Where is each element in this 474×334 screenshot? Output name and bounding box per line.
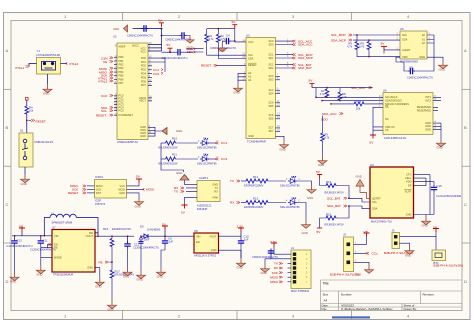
svg-text:CCx: CCx: [372, 252, 378, 256]
svg-text:GND: GND: [113, 27, 119, 31]
svg-text:EN: EN: [196, 240, 200, 244]
svg-text:R16: R16: [103, 227, 109, 231]
svg-text:PB7: PB7: [119, 81, 124, 85]
svg-text:C0603C104K4RACTU: C0603C104K4RACTU: [127, 34, 153, 38]
svg-text:RESET: RESET: [248, 63, 257, 67]
resistor R16 divider top: [103, 227, 131, 270]
svg-text:B2B-PH-K-S(LF)(SN): B2B-PH-K-S(LF)(SN): [434, 264, 463, 268]
ground mux a pins: [234, 83, 243, 95]
pin numbers mux left: [242, 39, 245, 80]
svg-text:U2: U2: [113, 35, 117, 39]
svg-text:Revision: Revision: [423, 293, 435, 297]
svg-text:GND: GND: [219, 49, 225, 53]
svg-text:4.7k: 4.7k: [359, 45, 365, 49]
svg-text:GND: GND: [157, 275, 163, 279]
svg-text:SCL: SCL: [248, 53, 254, 57]
net label SCK: [101, 73, 113, 77]
capacitor C12 out: [124, 242, 159, 268]
net label MISO icsp: [70, 184, 86, 188]
svg-text:TX: TX: [230, 179, 234, 183]
resistor R8: [338, 88, 347, 102]
svg-text:C4: C4: [226, 34, 230, 38]
svg-text:GND: GND: [437, 146, 443, 150]
svg-text:UART1: UART1: [199, 176, 209, 180]
net label MISO hdr: [270, 280, 283, 284]
svg-text:GND: GND: [355, 272, 361, 276]
svg-text:GND: GND: [140, 134, 146, 138]
svg-text:RX: RX: [214, 189, 218, 193]
ground crystal: [43, 84, 52, 96]
svg-text:R10: R10: [172, 137, 178, 141]
svg-text:GND: GND: [318, 163, 324, 167]
svg-text:PD4: PD4: [141, 72, 147, 76]
svg-text:XTAL2: XTAL2: [69, 62, 79, 66]
svg-text:RESERVED: RESERVED: [417, 108, 431, 112]
svg-text:GND: GND: [261, 271, 267, 275]
net label SDA_ACC: [292, 43, 313, 47]
power C3: [167, 43, 173, 52]
led row4: [230, 201, 240, 205]
ground R9: [318, 156, 327, 168]
svg-text:TCA9548APWR: TCA9548APWR: [247, 139, 266, 143]
svg-text:GND: GND: [119, 191, 125, 195]
net label RESET mux: [201, 64, 217, 68]
ground switch: [21, 174, 30, 186]
svg-text:RX: RX: [230, 201, 234, 205]
resistor R7: [320, 87, 329, 98]
capacitor C3: [162, 49, 194, 60]
capacitor C2: [161, 32, 191, 41]
svg-text:R13: R13: [253, 197, 259, 201]
wire mux scl sda: [193, 49, 246, 59]
power 5V mcu: [158, 19, 164, 27]
wire adxl cs vdd: [373, 107, 383, 134]
junction dots vout: [97, 236, 141, 237]
svg-text:RESET: RESET: [68, 191, 78, 195]
svg-text:MOSI: MOSI: [118, 187, 125, 191]
svg-text:C0603C104K4RACTU: C0603C104K4RACTU: [407, 76, 433, 80]
svg-text:VCC: VCC: [248, 40, 254, 44]
net label SCL mcu: [101, 109, 113, 113]
svg-text:File:: File:: [322, 307, 328, 311]
svg-text:VB: VB: [433, 226, 437, 230]
uart wires: [185, 181, 198, 205]
wire mux gnd: [276, 136, 285, 139]
mcu U2 ATMEGA328P-AU: [113, 35, 148, 145]
svg-text:ALRT: ALRT: [405, 189, 412, 193]
svg-text:SD0: SD0: [268, 42, 274, 46]
svg-text:TX: TX: [215, 186, 219, 190]
junction dots 5v: [164, 236, 165, 237]
svg-text:SCK: SCK: [96, 187, 102, 191]
svg-text:CE: CE: [103, 60, 107, 64]
svg-text:VDD: VDD: [402, 55, 408, 59]
svg-text:SD3: SD3: [268, 78, 274, 82]
prog header top wire: [265, 247, 291, 259]
capacitor C10: [238, 235, 249, 259]
svg-text:EP: EP: [408, 183, 412, 187]
ground hdr: [261, 264, 270, 276]
power 3.3V ldo: [237, 225, 245, 232]
svg-text:GND: GND: [307, 196, 313, 200]
svg-text:U5: U5: [400, 27, 404, 31]
svg-text:C1206C106K4RACTU: C1206C106K4RACTU: [30, 248, 56, 252]
net label SCL_ACC right: [351, 86, 372, 90]
ground mcu: [162, 128, 182, 135]
svg-text:ICSP1: ICSP1: [95, 175, 104, 179]
power adxl: [370, 135, 377, 145]
svg-text:VB: VB: [364, 230, 368, 234]
svg-text:C1206C106K4RACTU: C1206C106K4RACTU: [133, 245, 159, 249]
capacitor C15 gauge: [430, 182, 461, 215]
net label CC2: [153, 72, 163, 76]
net label SCL wire: [187, 47, 196, 51]
svg-text:U7: U7: [52, 226, 56, 230]
wire mcp alert power: [384, 50, 400, 54]
svg-text:SCK: SCK: [272, 271, 279, 275]
ground divider: [108, 300, 117, 312]
led D4: [280, 197, 306, 220]
ground icsp: [135, 197, 144, 209]
svg-text:C0603C104K4RACTU: C0603C104K4RACTU: [252, 255, 278, 259]
mux right stubs ch0-3: [276, 41, 294, 68]
wires mcp scl sda: [353, 35, 400, 40]
svg-text:PC5: PC5: [119, 108, 125, 112]
svg-text:10k: 10k: [356, 107, 361, 111]
net label TX hdr: [274, 262, 283, 266]
svg-text:GND: GND: [406, 212, 412, 216]
capacitor C14 hdr: [252, 249, 278, 260]
capacitor C11 input2: [30, 239, 56, 252]
svg-text:GND: GND: [21, 182, 27, 186]
svg-text:ERJ8GEYJ470V: ERJ8GEYJ470V: [325, 190, 344, 194]
svg-text:4.7k: 4.7k: [324, 136, 330, 140]
wire switch gnd: [24, 167, 26, 174]
net label RX uart: [174, 186, 184, 190]
svg-text:AVCC: AVCC: [132, 43, 139, 47]
svg-text:CL21A106KQSNNNE: CL21A106KQSNNNE: [436, 194, 461, 198]
svg-text:4.7k: 4.7k: [347, 45, 353, 49]
ground avcc filter: [113, 25, 133, 32]
svg-text:D: D: [464, 279, 467, 284]
svg-text:SD5: SD5: [268, 104, 274, 108]
svg-text:VDD: VDD: [406, 179, 412, 183]
svg-text:CTG: CTG: [406, 172, 411, 176]
wire vout rail: [95, 233, 141, 243]
svg-text:C: C: [6, 202, 9, 207]
svg-text:SCL: SCL: [402, 33, 408, 37]
svg-text:VS: VS: [385, 128, 389, 132]
svg-text:C: C: [464, 202, 467, 207]
svg-text:SCL_MCP: SCL_MCP: [331, 33, 346, 37]
led row2 resistor R11: [159, 153, 199, 166]
title block: [321, 280, 463, 311]
ldo U8 AP2112K: [194, 229, 219, 257]
svg-text:GND: GND: [43, 92, 49, 96]
capacitor C8 mcp: [404, 57, 434, 79]
svg-text:S1: S1: [20, 129, 24, 133]
svg-text:GND: GND: [10, 280, 16, 284]
svg-text:MISO: MISO: [96, 184, 103, 188]
svg-text:GND: GND: [439, 68, 445, 72]
svg-text:J3: J3: [392, 229, 395, 233]
net label CC J2: [366, 252, 378, 256]
wire mcu avcc rail: [133, 29, 162, 52]
net label RESET icsp: [68, 191, 86, 195]
power uart vref: [181, 205, 188, 215]
svg-text:GND: GND: [280, 148, 286, 152]
svg-text:SD6: SD6: [268, 117, 274, 121]
svg-text:U6: U6: [383, 89, 387, 93]
svg-text:AREF: AREF: [119, 45, 126, 49]
svg-text:SC4: SC4: [268, 88, 274, 92]
net label SDA_BAT right: [327, 204, 347, 208]
net label SDA_MCP right: [331, 38, 352, 42]
svg-text:SD2: SD2: [268, 66, 274, 70]
svg-text:C15: C15: [437, 184, 443, 188]
net label XTAL2 mcu: [98, 80, 113, 84]
svg-text:CELL: CELL: [405, 176, 412, 180]
svg-text:3.3V: 3.3V: [237, 225, 244, 229]
svg-text:ERJP06F220MV: ERJP06F220MV: [244, 184, 264, 188]
svg-text:SDA_ACC: SDA_ACC: [298, 43, 313, 47]
wire mux reset: [216, 64, 246, 66]
wire mode: [41, 257, 52, 259]
svg-text:SDA: SDA: [402, 37, 408, 41]
svg-text:SC1: SC1: [268, 52, 274, 56]
svg-text:TPS61022RWUR: TPS61022RWUR: [53, 273, 73, 277]
power VB J2: [364, 230, 370, 237]
ground led row3: [307, 185, 316, 200]
net label SDA mcu: [101, 106, 113, 110]
resistor R9 sdo: [321, 116, 330, 156]
net label CSN: [101, 56, 113, 60]
net label MISO: [99, 70, 113, 74]
svg-text:XTAL2: XTAL2: [98, 80, 108, 84]
net label XTAL2: [66, 62, 79, 66]
svg-text:J2: J2: [343, 233, 346, 237]
svg-text:SDO/ALT ADDRESS: SDO/ALT ADDRESS: [385, 102, 409, 106]
svg-text:XTAL1: XTAL1: [15, 66, 25, 70]
wire XTAL1: [29, 64, 37, 67]
svg-text:Number: Number: [341, 293, 352, 297]
led row1 resistor R10: [159, 137, 199, 150]
net label SCL_ACC: [292, 39, 313, 43]
net label RESET sw: [28, 119, 46, 124]
svg-text:TX: TX: [274, 262, 278, 266]
mcu left pin stubs PB: [114, 57, 117, 115]
mux right stubs nc: [276, 76, 281, 131]
svg-text:GND: GND: [176, 171, 182, 175]
wire adxl right gnd: [433, 97, 441, 138]
ground mux cap: [218, 41, 227, 52]
wire en fb: [41, 245, 52, 266]
wire J3 pin1: [400, 232, 437, 246]
led row3: [230, 179, 240, 183]
svg-text:SML-D12PWT86: SML-D12PWT86: [280, 205, 300, 209]
svg-text:4.7k: 4.7k: [209, 37, 215, 41]
svg-text:SDA_MCP: SDA_MCP: [331, 38, 346, 42]
power mux vcc: [232, 20, 238, 29]
temp sensor U5 MCP9808: [400, 27, 427, 64]
led D3: [280, 175, 312, 188]
net label SCL_BAT right: [327, 196, 347, 200]
svg-text:INT2: INT2: [425, 99, 431, 103]
ground led row4: [302, 220, 311, 235]
net label MOSI icsp: [143, 188, 155, 192]
net label MOSI hdr: [270, 275, 283, 279]
svg-text:1uF: 1uF: [244, 238, 249, 242]
svg-text:ALERT: ALERT: [402, 48, 411, 52]
svg-text:SCL: SCL: [101, 109, 107, 113]
svg-text:A2: A2: [422, 41, 426, 45]
svg-text:SCL_BAT: SCL_BAT: [327, 196, 341, 200]
svg-text:ERJ2RKF1003X: ERJ2RKF1003X: [159, 161, 178, 165]
resistor R13: [241, 197, 286, 210]
ground adxl: [437, 138, 446, 150]
svg-text:4.7k: 4.7k: [342, 95, 348, 99]
svg-text:PB2: PB2: [119, 63, 124, 67]
boost converter U7 TPS61022: [52, 226, 95, 277]
svg-text:PD1: PD1: [141, 60, 147, 64]
net label XTAL1: [15, 65, 29, 70]
svg-text:RESET: RESET: [36, 120, 46, 124]
svg-text:GND: GND: [405, 253, 411, 257]
svg-text:SC0: SC0: [268, 39, 274, 43]
net label TX uart: [174, 190, 184, 194]
svg-text:ADXL345BCCZ-RL: ADXL345BCCZ-RL: [384, 136, 407, 140]
wire J2 pin2: [354, 252, 367, 254]
svg-text:CC1: CC1: [221, 141, 227, 145]
wire mcp vdd: [396, 57, 404, 69]
svg-text:NC: NC: [385, 117, 389, 121]
net label CC0: [101, 94, 113, 98]
svg-text:PB4: PB4: [119, 70, 124, 74]
ground C12: [123, 267, 132, 279]
svg-text:10k: 10k: [29, 109, 34, 113]
ground mcp: [439, 60, 448, 72]
scrollbar hint: [332, 316, 370, 318]
svg-text:GND: GND: [237, 266, 243, 270]
svg-text:RX: RX: [274, 266, 278, 270]
svg-text:Drawn By:: Drawn By:: [404, 307, 418, 311]
svg-text:QSTRT: QSTRT: [372, 196, 381, 200]
svg-text:VIN: VIN: [54, 234, 58, 238]
svg-text:SML-D12PWT86: SML-D12PWT86: [197, 161, 217, 165]
wire scl acc: [312, 88, 383, 98]
svg-text:A2: A2: [248, 78, 252, 82]
wire led rows left: [161, 143, 184, 172]
capacitor C14 bulk: [139, 238, 150, 271]
svg-text:A4: A4: [324, 299, 328, 303]
svg-text:PD7: PD7: [141, 83, 147, 87]
power icsp vcc: [136, 175, 142, 183]
svg-text:PD5: PD5: [141, 75, 147, 79]
svg-text:GND: GND: [212, 182, 218, 186]
svg-text:CC2: CC2: [153, 72, 159, 76]
icsp right wires: [127, 183, 145, 197]
wires gauge scl sda: [348, 198, 370, 208]
wire hdr gnd: [264, 259, 266, 264]
net label CE: [103, 60, 113, 64]
svg-text:R11: R11: [172, 153, 177, 157]
ground C13: [10, 272, 19, 284]
net label SCL_MCP: [292, 53, 313, 57]
net label en bracket: [48, 243, 51, 245]
svg-text:A0: A0: [248, 71, 252, 75]
svg-text:RST: RST: [96, 191, 102, 195]
svg-text:GND: GND: [248, 134, 254, 138]
accel U6 ADXL345: [383, 89, 433, 141]
svg-text:GND: GND: [211, 248, 217, 252]
wire pd0 pd1: [148, 58, 165, 72]
svg-text:VRef: VRef: [212, 195, 218, 199]
svg-text:PD0: PD0: [141, 56, 147, 60]
pin numbers mcp: [397, 32, 431, 50]
ground ldo: [237, 258, 246, 270]
net label row1: [215, 141, 227, 145]
svg-text:PB3: PB3: [119, 66, 124, 70]
ground uart (up arrow): [176, 171, 189, 181]
svg-text:GND: GND: [108, 308, 114, 312]
battery connector J2: [330, 233, 359, 277]
svg-text:1uF: 1uF: [169, 240, 174, 244]
resistor R6 pullup mcp sda: [359, 40, 371, 57]
svg-text:SDA_ACC: SDA_ACC: [322, 112, 337, 116]
ground gauge qstrt (up): [356, 175, 371, 199]
uart header UART1: [197, 176, 220, 211]
svg-text:C: C: [299, 178, 301, 181]
svg-text:RESET: RESET: [201, 64, 211, 68]
power VB boost: [19, 225, 25, 232]
svg-text:KMR221NGLFS: KMR221NGLFS: [35, 140, 54, 144]
mcu pin numbers left: [115, 45, 118, 116]
wire ldo vout: [219, 232, 242, 239]
battery holder BT1: [432, 237, 463, 268]
svg-text:ADC7: ADC7: [139, 99, 146, 103]
net label row2: [215, 157, 227, 161]
svg-text:SC6: SC6: [268, 113, 274, 117]
svg-text:C1206C106K4RACTU: C1206C106K4RACTU: [7, 244, 33, 248]
svg-text:VOUT: VOUT: [209, 234, 217, 238]
svg-text:GND: GND: [419, 55, 425, 59]
svg-text:B: B: [464, 125, 467, 130]
capacitor C4 mux: [210, 29, 246, 50]
net label RESET mcu: [96, 114, 113, 118]
svg-text:B: B: [6, 125, 9, 130]
svg-text:4.7k: 4.7k: [320, 92, 326, 96]
svg-text:A1: A1: [422, 37, 426, 41]
net label RX hdr: [274, 266, 283, 270]
ground gauge: [422, 215, 431, 228]
svg-text:GND: GND: [137, 278, 143, 282]
net label XTAL1 mcu: [98, 77, 113, 81]
svg-text:J1: J1: [291, 246, 294, 250]
svg-text:GND: GND: [422, 224, 428, 228]
ground C9: [157, 267, 166, 279]
power VB J3: [433, 226, 439, 233]
fuel gauge U9 MAX17048: [370, 163, 414, 223]
gauge right wires: [414, 175, 431, 215]
svg-text:VB: VB: [19, 225, 23, 229]
wire ldo gnd: [219, 250, 242, 258]
ground C14: [137, 270, 146, 282]
svg-text:RESET: RESET: [96, 114, 106, 118]
inductor L1: [44, 212, 98, 233]
svg-text:ERJ2RKF2473X: ERJ2RKF2473X: [112, 227, 131, 231]
pin numbers adxl: [379, 95, 437, 130]
power hdr 3.3V: [270, 240, 277, 247]
